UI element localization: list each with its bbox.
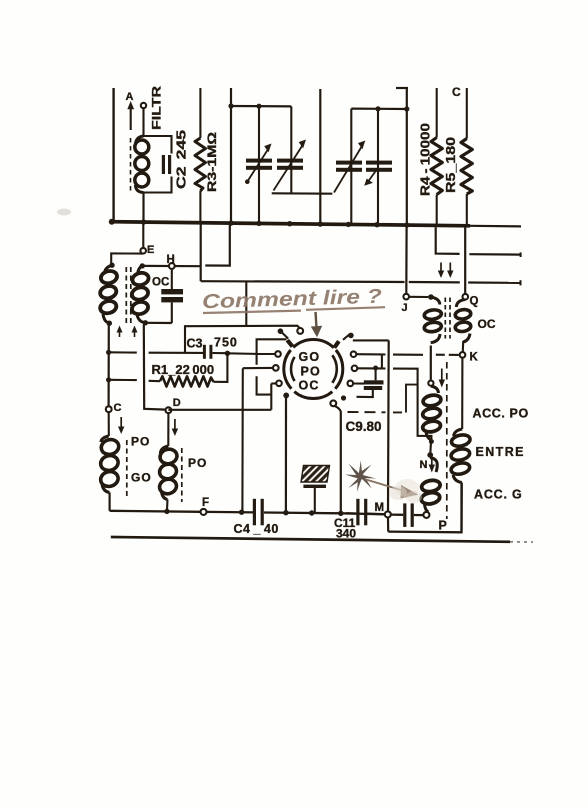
label ENTRE xyxy=(476,445,525,459)
wire xyxy=(142,193,144,223)
pin (top-left cap) xyxy=(278,328,289,338)
wire (ground rail) xyxy=(110,511,385,515)
wire xyxy=(168,409,271,411)
arrow xyxy=(172,419,178,436)
svg-text:C9.80: C9.80 xyxy=(346,419,382,434)
label C9.80 xyxy=(346,419,382,434)
wire (shield box left) xyxy=(257,339,287,394)
resistor R4 xyxy=(431,88,442,226)
wire xyxy=(406,87,408,225)
wire xyxy=(387,517,389,531)
svg-text:ENTRE: ENTRE xyxy=(476,445,525,459)
label GO xyxy=(131,471,152,485)
rail gap fix xyxy=(346,512,385,515)
wire (shield box right top) xyxy=(353,339,389,341)
wire (dashed core) xyxy=(130,138,132,192)
wire xyxy=(112,88,114,223)
svg-text:A: A xyxy=(126,91,134,103)
node xyxy=(256,104,261,109)
node xyxy=(164,509,343,516)
svg-text:C2 245: C2 245 xyxy=(175,130,189,189)
node (antenna terminal) xyxy=(141,103,146,108)
svg-text:PO: PO xyxy=(188,456,207,470)
wire (gang link) xyxy=(272,192,333,195)
label ACC. G xyxy=(474,488,523,502)
label PO xyxy=(188,456,207,470)
svg-text:R5_180: R5_180 xyxy=(443,137,458,193)
capacitor C9 xyxy=(357,368,384,397)
svg-text:N: N xyxy=(420,459,428,471)
resistor R1 xyxy=(109,376,214,386)
wire xyxy=(231,105,291,108)
node A xyxy=(126,91,135,130)
capacitor C3 xyxy=(203,345,213,359)
wire xyxy=(381,354,383,368)
node xyxy=(228,103,233,108)
label C4 40 xyxy=(234,522,279,536)
node xyxy=(375,106,380,111)
inductor L7 (GO pickup) xyxy=(420,458,441,513)
wire xyxy=(227,352,256,355)
node (pickup top) xyxy=(428,381,433,386)
node xyxy=(341,395,346,400)
label FILTRE xyxy=(150,86,164,130)
label R1 22000 xyxy=(152,362,215,377)
node xyxy=(106,350,111,383)
wire xyxy=(461,358,463,429)
capacitor CV2 (variable) xyxy=(274,140,307,191)
svg-text:R3-1MΩ: R3-1MΩ xyxy=(207,132,219,192)
svg-text:Q: Q xyxy=(470,296,479,308)
svg-text:OC: OC xyxy=(478,317,496,331)
node (grid cap) xyxy=(297,328,303,334)
wire (R4 branch) xyxy=(436,227,460,254)
capacitor C13 xyxy=(391,503,424,527)
wire xyxy=(230,88,232,223)
wire xyxy=(396,87,408,89)
arrow (annotation) xyxy=(311,312,322,337)
capacitor C2 xyxy=(162,155,171,174)
wire (stub) xyxy=(205,225,230,266)
wire xyxy=(393,369,431,442)
wire (dashed core T2) xyxy=(445,298,450,339)
capacitor CV4 (variable) xyxy=(364,161,392,186)
tube socket wedges xyxy=(287,340,339,347)
wire xyxy=(200,224,202,281)
capacitor C5 xyxy=(161,269,183,323)
node xyxy=(109,263,114,268)
label PO xyxy=(131,435,150,449)
pin 3 left xyxy=(271,381,282,387)
wire (dashed leader) xyxy=(348,385,418,413)
resistor R5 xyxy=(461,88,472,226)
pin 1 left xyxy=(257,351,281,357)
label R5-180 xyxy=(443,137,458,193)
inductor L6 (PO pickup) xyxy=(422,386,442,440)
wire (dashed core) xyxy=(181,448,183,502)
wire (to K dashes) xyxy=(393,354,459,356)
svg-text:H: H xyxy=(167,254,175,266)
svg-text:OC: OC xyxy=(152,277,169,289)
label ACC. PO xyxy=(473,407,529,421)
node J xyxy=(402,294,410,314)
label OC xyxy=(478,317,496,331)
pin (cathode bottom) xyxy=(330,400,340,411)
node P xyxy=(423,512,446,533)
wire xyxy=(214,353,228,382)
node xyxy=(404,106,409,111)
svg-text:F: F xyxy=(202,497,209,509)
node xyxy=(107,321,112,326)
wire (filter box) xyxy=(144,136,172,193)
capacitor C11 xyxy=(356,499,367,526)
svg-text:R4 - 10000: R4 - 10000 xyxy=(418,123,433,196)
label C2 245 xyxy=(175,130,189,189)
wire xyxy=(144,325,166,410)
pin 2 right xyxy=(352,366,386,372)
node C xyxy=(106,402,122,414)
svg-text:M: M xyxy=(375,502,385,514)
svg-text:C: C xyxy=(114,402,122,414)
svg-text:ACC. G: ACC. G xyxy=(474,488,523,502)
node Q xyxy=(463,294,479,308)
wire (screen column) xyxy=(387,340,390,511)
svg-text:K: K xyxy=(470,352,479,364)
svg-text:GO: GO xyxy=(131,471,152,485)
ground (chassis hatch) xyxy=(301,466,330,513)
transformer T2 primary xyxy=(424,294,442,343)
capacitor CV3 (variable) xyxy=(334,141,365,193)
node D xyxy=(166,397,181,413)
svg-text:C4 _ 40: C4 _ 40 xyxy=(234,522,279,536)
svg-text:P: P xyxy=(439,519,447,533)
wire xyxy=(340,411,342,513)
pin 2 left xyxy=(243,365,279,371)
label R3-1M xyxy=(207,132,219,192)
node xyxy=(429,439,434,444)
pin (bottom-left) xyxy=(283,393,289,513)
pin 1 right xyxy=(351,351,386,357)
wire xyxy=(409,296,428,298)
wire xyxy=(377,109,379,225)
svg-text:750: 750 xyxy=(214,336,238,350)
node (bus junctions) xyxy=(141,219,410,227)
wire xyxy=(258,106,260,223)
wire (main AVC bus) xyxy=(109,219,521,227)
svg-text:E: E xyxy=(147,244,154,256)
node F xyxy=(201,497,210,515)
arrow xyxy=(118,417,124,434)
wire (dashed core) xyxy=(126,440,128,496)
wire (dashed cores) xyxy=(126,267,131,324)
inductor L1 (antenna filter coil) xyxy=(135,136,149,193)
wire xyxy=(111,253,143,263)
wire (C3 row) xyxy=(109,351,228,354)
arrow xyxy=(439,369,445,388)
svg-text:ACC. PO: ACC. PO xyxy=(473,407,529,421)
handwriting Comment lire ? xyxy=(202,286,383,314)
resistor R3 xyxy=(195,88,206,223)
star (annotation) xyxy=(345,461,376,492)
wire xyxy=(430,346,432,381)
svg-text:PO: PO xyxy=(301,364,321,378)
capacitor C4 xyxy=(253,499,264,526)
inductor L5 (ENTRE) xyxy=(450,429,471,531)
inductor L4 (PO) xyxy=(158,413,178,510)
svg-text:OC: OC xyxy=(299,378,320,392)
svg-text:PO: PO xyxy=(131,435,150,449)
wire xyxy=(350,109,352,225)
label R4-10000 xyxy=(418,123,433,196)
wire (grid tap) xyxy=(185,326,300,353)
arrows (IF) xyxy=(438,263,454,279)
smudge xyxy=(57,209,71,216)
svg-text:D: D xyxy=(173,397,181,409)
node K xyxy=(460,352,479,364)
wire xyxy=(241,368,244,512)
wire xyxy=(145,322,172,324)
transformer T1 secondary xyxy=(131,263,150,325)
wire xyxy=(290,106,292,193)
wire xyxy=(142,224,144,248)
svg-text:R1_22 000: R1_22 000 xyxy=(152,362,215,377)
tube socket V1 xyxy=(284,340,343,399)
svg-text:C3: C3 xyxy=(187,337,203,351)
wire (dashed core) xyxy=(446,362,448,519)
arrow xyxy=(429,458,435,473)
wire xyxy=(245,281,247,326)
label C (cut) xyxy=(452,85,461,99)
svg-text:C: C xyxy=(452,85,461,99)
node E xyxy=(140,244,154,256)
wire xyxy=(107,323,109,406)
node C column coil : inductor L3 (GO) xyxy=(99,412,120,511)
svg-text:FILTR: FILTR xyxy=(150,86,164,130)
node M xyxy=(375,502,391,517)
wire (bottom bus) xyxy=(111,537,533,542)
wire xyxy=(469,252,520,257)
wire xyxy=(270,384,272,410)
wire xyxy=(319,89,321,224)
wire xyxy=(405,227,408,294)
arrow (annotation red) xyxy=(365,479,422,503)
label C11 340 xyxy=(334,516,356,541)
wire (long AVC return) xyxy=(201,280,521,285)
wire xyxy=(142,108,144,136)
wire xyxy=(351,107,407,110)
transformer T1 primary xyxy=(99,265,119,323)
wire (rail 2) xyxy=(388,484,461,532)
capacitor CV1 (variable) xyxy=(245,144,272,185)
pin (top-right) xyxy=(343,333,354,340)
svg-text:J: J xyxy=(402,302,408,314)
node xyxy=(373,366,378,371)
pin 3 right xyxy=(348,381,365,387)
label C3 750 xyxy=(187,336,238,351)
transformer T2 secondary xyxy=(455,300,472,353)
label OC xyxy=(152,277,169,289)
wire xyxy=(142,265,201,268)
node xyxy=(225,351,230,356)
svg-text:GO: GO xyxy=(299,350,321,364)
wire xyxy=(464,228,466,294)
handwriting underline xyxy=(203,307,385,313)
node H xyxy=(167,254,175,269)
arrows (flux) xyxy=(117,326,138,338)
node N xyxy=(420,442,434,472)
label GO PO OC xyxy=(299,350,321,392)
